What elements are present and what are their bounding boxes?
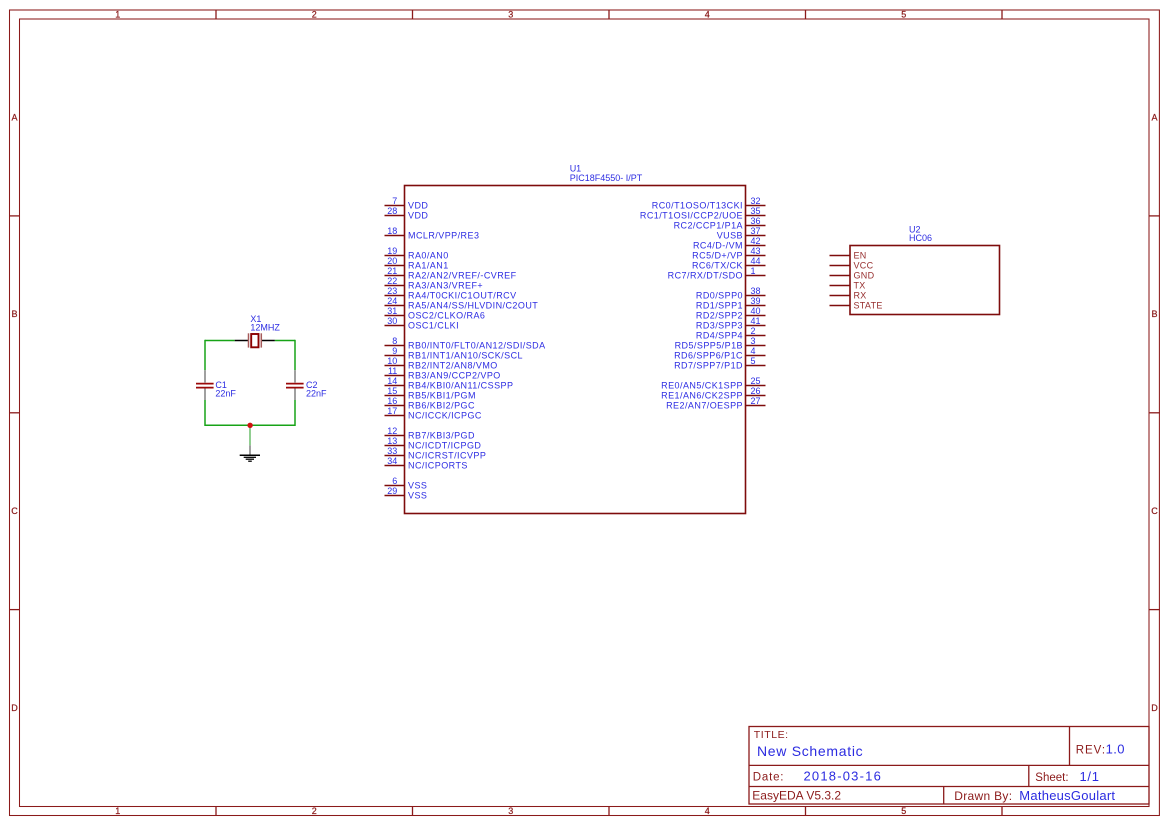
U1 pin 8 RB0/INT0/FLT0/AN12/SDI/SDA (left) [385,336,546,350]
svg-text:RE2/AN7/OESPP: RE2/AN7/OESPP [666,400,743,410]
U1 pin 32 RC0/T1OSO/T13CKI (right) [652,196,766,210]
U1 pin 31 OSC2/CLKO/RA6 (left) [385,306,486,320]
U1 pin 25 RE0/AN5/CK1SPP (right) [661,376,765,390]
crystal X1 body rectangle [251,334,258,347]
svg-text:24: 24 [387,296,397,306]
svg-text:RB6/KBI2/PGC: RB6/KBI2/PGC [408,400,475,410]
svg-text:25: 25 [751,376,761,386]
U1 pin 9 RB1/INT1/AN10/SCK/SCL (left) [385,346,524,360]
svg-text:40: 40 [751,306,761,316]
U1 pin 27 RE2/AN7/OESPP (right) [666,396,765,410]
svg-text:VSS: VSS [408,480,427,490]
svg-text:38: 38 [751,286,761,296]
capacitor C2 top gray stub [294,370,296,382]
U1 pin 5 RD7/SPP7/P1D (right) [674,356,765,370]
frame row ticks left [10,216,20,610]
svg-text:2: 2 [751,326,756,336]
svg-text:TX: TX [854,280,866,290]
crystal X1 left pin (black) [235,340,249,342]
svg-text:23: 23 [387,286,397,296]
svg-text:1: 1 [115,806,120,816]
svg-text:RC4/D-/VM: RC4/D-/VM [693,240,743,250]
svg-text:33: 33 [387,446,397,456]
svg-text:31: 31 [387,306,397,316]
U1 pin 15 RB5/KBI1/PGM (left) [385,386,476,400]
svg-text:EN: EN [854,250,867,260]
svg-text:8: 8 [392,336,397,346]
svg-text:RD1/SPP1: RD1/SPP1 [696,300,743,310]
svg-text:RX: RX [854,290,867,300]
svg-text:12MHZ: 12MHZ [250,322,280,332]
U2 pin RX [830,290,867,300]
ground symbol [240,455,260,461]
svg-text:RD0/SPP0: RD0/SPP0 [696,290,743,300]
U1 pin 41 RD3/SPP3 (right) [696,316,766,330]
svg-text:NC/ICPORTS: NC/ICPORTS [408,460,468,470]
svg-text:VUSB: VUSB [717,230,743,240]
svg-text:11: 11 [388,366,397,376]
IC U1 PIC18F4550 body [405,186,746,514]
svg-text:VDD: VDD [408,200,428,210]
U1 pin 33 NC/ICRST/ICVPP (left) [385,446,487,460]
capacitor C2 bottom plate [286,387,304,389]
U1 pin 19 RA0/AN0 (left) [385,246,449,260]
wire right vertical lower (C2 to corner) [294,400,296,426]
svg-text:1.0: 1.0 [1106,741,1125,756]
U1 pin 14 RB4/KBI0/AN11/CSSPP (left) [385,376,514,390]
capacitor C1 top plate [196,383,214,385]
wire top right (X1 right to corner) [275,340,295,342]
U1 pin 43 RC5/D+/VP (right) [692,246,765,260]
svg-text:44: 44 [751,256,761,266]
svg-text:5: 5 [901,10,906,20]
svg-text:RD6/SPP6/P1C: RD6/SPP6/P1C [674,350,743,360]
svg-text:2: 2 [312,10,317,20]
U1 pin 35 RC1/T1OSI/CCP2/UOE (right) [640,206,766,220]
svg-text:21: 21 [387,266,397,276]
svg-text:4: 4 [705,806,710,816]
svg-text:U1: U1 [570,164,582,174]
svg-text:39: 39 [751,296,761,306]
svg-text:22: 22 [387,276,397,286]
svg-text:28: 28 [387,206,397,216]
U1 pin 30 OSC1/CLKI (left) [385,316,460,330]
svg-text:16: 16 [387,396,397,406]
U1 pin 39 RD1/SPP1 (right) [696,296,766,310]
capacitor C2 top plate [286,383,304,385]
svg-text:C: C [1151,506,1158,516]
svg-text:36: 36 [751,216,761,226]
svg-text:43: 43 [751,246,761,256]
svg-text:14: 14 [387,376,397,386]
frame row letters left [11,112,18,713]
svg-text:D: D [11,703,18,713]
U1 pin 36 RC2/CCP1/P1A (right) [674,216,766,230]
frame column numbers top [115,10,906,20]
svg-text:13: 13 [387,436,397,446]
wire top left (X1 left to corner) [205,340,235,342]
svg-text:10: 10 [387,356,397,366]
U1 pin 22 RA3/AN3/VREF+ (left) [385,276,484,290]
svg-text:22nF: 22nF [215,388,236,398]
U2 pin VCC [830,260,874,270]
svg-text:35: 35 [751,206,761,216]
svg-text:D: D [1151,703,1158,713]
U1 pin 26 RE1/AN6/CK2SPP (right) [661,386,765,400]
svg-text:PIC18F4550- I/PT: PIC18F4550- I/PT [570,173,643,183]
svg-text:RC6/TX/CK: RC6/TX/CK [692,260,743,270]
ground stub wire (light green) [249,425,251,445]
svg-text:RC5/D+/VP: RC5/D+/VP [692,250,743,260]
svg-text:NC/ICDT/ICPGD: NC/ICDT/ICPGD [408,440,481,450]
svg-text:RB7/KBI3/PGD: RB7/KBI3/PGD [408,430,475,440]
wire bottom [205,424,295,426]
svg-text:MCLR/VPP/RE3: MCLR/VPP/RE3 [408,230,479,240]
U1 pin 20 RA1/AN1 (left) [385,256,449,270]
frame row letters right [1151,112,1158,713]
U1 pin 38 RD0/SPP0 (right) [696,286,766,300]
U1 pin 24 RA5/AN4/SS/HLVDIN/C2OUT (left) [385,296,539,310]
svg-text:RB4/KBI0/AN11/CSSPP: RB4/KBI0/AN11/CSSPP [408,380,513,390]
svg-text:STATE: STATE [854,300,883,310]
svg-text:RD2/SPP2: RD2/SPP2 [696,310,743,320]
svg-text:RB1/INT1/AN10/SCK/SCL: RB1/INT1/AN10/SCK/SCL [408,350,523,360]
frame column ticks top [216,10,1002,19]
svg-text:22nF: 22nF [306,388,327,398]
svg-text:32: 32 [751,196,761,206]
U1 pin 17 NC/ICCK/ICPGC (left) [385,406,482,420]
svg-text:B: B [1151,309,1157,319]
svg-text:19: 19 [387,246,397,256]
svg-text:EasyEDA V5.3.2: EasyEDA V5.3.2 [752,788,841,802]
crystal X1 right plate [260,333,262,347]
svg-text:RD4/SPP4: RD4/SPP4 [696,330,743,340]
svg-text:RA0/AN0: RA0/AN0 [408,250,449,260]
wire left vertical lower (C1 to corner) [204,400,206,426]
svg-text:26: 26 [751,386,761,396]
svg-text:6: 6 [392,476,397,486]
ground stub gray segment [249,445,251,455]
svg-text:34: 34 [387,456,397,466]
svg-text:RC7/RX/DT/SDO: RC7/RX/DT/SDO [668,270,743,280]
U1 pin 1 RC7/RX/DT/SDO (right) [668,266,766,280]
svg-text:9: 9 [392,346,397,356]
U1 pin 13 NC/ICDT/ICPGD (left) [385,436,482,450]
svg-text:12: 12 [387,426,397,436]
svg-text:29: 29 [387,486,397,496]
capacitor C2 bottom gray stub [294,389,296,401]
frame column ticks bottom [216,807,1002,816]
svg-text:Date:: Date: [753,771,785,783]
svg-text:2018-03-16: 2018-03-16 [804,768,883,783]
U1 pin 42 RC4/D-/VM (right) [693,236,766,250]
svg-text:Drawn By:: Drawn By: [954,789,1012,803]
svg-text:A: A [11,112,17,122]
U1 pin 2 RD4/SPP4 (right) [696,326,766,340]
svg-text:15: 15 [387,386,397,396]
U1 pin 29 VSS (left) [385,486,428,500]
IC U2 HC06 body [850,246,1000,315]
svg-text:RD5/SPP5/P1B: RD5/SPP5/P1B [675,340,743,350]
U1 pin 11 RB3/AN9/CCP2/VPO (left) [385,366,501,380]
svg-text:MatheusGoulart: MatheusGoulart [1019,788,1115,803]
svg-text:RC2/CCP1/P1A: RC2/CCP1/P1A [674,220,743,230]
svg-text:RD7/SPP7/P1D: RD7/SPP7/P1D [674,360,743,370]
U1 pin 16 RB6/KBI2/PGC (left) [385,396,475,410]
title block border [749,727,1149,805]
U1 pin 40 RD2/SPP2 (right) [696,306,766,320]
svg-text:A: A [1151,112,1157,122]
U1 pin 12 RB7/KBI3/PGD (left) [385,426,475,440]
svg-text:RA1/AN1: RA1/AN1 [408,260,449,270]
svg-text:RA2/AN2/VREF/-CVREF: RA2/AN2/VREF/-CVREF [408,270,517,280]
capacitor C1 top gray stub [204,370,206,382]
U1 pin 34 NC/ICPORTS (left) [385,456,468,470]
U1 pin 18 MCLR/VPP/RE3 (left) [385,226,480,240]
svg-text:RA5/AN4/SS/HLVDIN/C2OUT: RA5/AN4/SS/HLVDIN/C2OUT [408,300,538,310]
capacitor C1 bottom gray stub [204,389,206,401]
wire left vertical upper (corner to C1) [204,340,206,370]
frame row ticks right [1149,216,1160,610]
svg-text:RC1/T1OSI/CCP2/UOE: RC1/T1OSI/CCP2/UOE [640,210,743,220]
U2 pin EN [830,250,867,260]
U2 pin GND [830,270,875,280]
frame column numbers bottom [115,806,906,816]
svg-text:2: 2 [312,806,317,816]
svg-text:42: 42 [751,236,761,246]
svg-text:RB2/INT2/AN8/VMO: RB2/INT2/AN8/VMO [408,360,498,370]
capacitor C1 bottom plate [196,387,214,389]
svg-text:VSS: VSS [408,490,427,500]
svg-text:1: 1 [751,266,756,276]
svg-text:RE1/AN6/CK2SPP: RE1/AN6/CK2SPP [661,390,743,400]
crystal X1 right pin (black) [262,340,275,342]
U1 pin 7 VDD (left) [385,196,429,210]
svg-text:37: 37 [751,226,761,236]
U2 pin TX [830,280,866,290]
svg-text:REV:: REV: [1076,744,1106,756]
svg-text:VDD: VDD [408,210,428,220]
svg-text:OSC2/CLKO/RA6: OSC2/CLKO/RA6 [408,310,485,320]
svg-text:41: 41 [751,316,761,326]
U1 pin 21 RA2/AN2/VREF/-CVREF (left) [385,266,517,280]
svg-text:RA3/AN3/VREF+: RA3/AN3/VREF+ [408,280,483,290]
svg-text:NC/ICRST/ICVPP: NC/ICRST/ICVPP [408,450,486,460]
svg-text:5: 5 [901,806,906,816]
svg-text:NC/ICCK/ICPGC: NC/ICCK/ICPGC [408,410,482,420]
U1 pin 10 RB2/INT2/AN8/VMO (left) [385,356,498,370]
U1 pin 4 RD6/SPP6/P1C (right) [674,346,765,360]
svg-text:RB5/KBI1/PGM: RB5/KBI1/PGM [408,390,476,400]
svg-text:C: C [11,506,18,516]
U1 pin 28 VDD (left) [385,206,429,220]
svg-text:RA4/T0CKI/C1OUT/RCV: RA4/T0CKI/C1OUT/RCV [408,290,517,300]
U1 pin 23 RA4/T0CKI/C1OUT/RCV (left) [385,286,517,300]
svg-text:RB3/AN9/CCP2/VPO: RB3/AN9/CCP2/VPO [408,370,501,380]
svg-text:3: 3 [508,10,513,20]
svg-text:4: 4 [751,346,756,356]
svg-text:Sheet:: Sheet: [1035,772,1068,784]
svg-text:New Schematic: New Schematic [757,743,863,759]
svg-text:1/1: 1/1 [1080,769,1100,784]
svg-text:1: 1 [115,10,120,20]
svg-text:18: 18 [387,226,397,236]
svg-text:4: 4 [705,10,710,20]
svg-text:B: B [11,309,17,319]
crystal X1 left plate [248,333,250,347]
U1 pin 3 RD5/SPP5/P1B (right) [675,336,766,350]
svg-text:7: 7 [392,196,397,206]
svg-text:RC0/T1OSO/T13CKI: RC0/T1OSO/T13CKI [652,200,743,210]
U1 pin 6 VSS (left) [385,476,428,490]
svg-text:30: 30 [387,316,397,326]
svg-text:27: 27 [751,396,761,406]
svg-text:RD3/SPP3: RD3/SPP3 [696,320,743,330]
svg-text:TITLE:: TITLE: [754,729,789,741]
junction dot (net node) [247,423,252,428]
svg-text:OSC1/CLKI: OSC1/CLKI [408,320,459,330]
svg-text:20: 20 [387,256,397,266]
svg-text:3: 3 [508,806,513,816]
svg-text:GND: GND [854,270,875,280]
svg-text:3: 3 [751,336,756,346]
U1 pin 44 RC6/TX/CK (right) [692,256,766,270]
U1 pin 37 VUSB (right) [717,226,766,240]
svg-text:17: 17 [387,406,397,416]
svg-text:RB0/INT0/FLT0/AN12/SDI/SDA: RB0/INT0/FLT0/AN12/SDI/SDA [408,340,546,350]
wire right vertical upper (corner to C2) [294,340,296,370]
svg-text:VCC: VCC [854,260,874,270]
svg-text:HC06: HC06 [909,233,932,243]
svg-text:5: 5 [751,356,756,366]
U2 pin STATE [830,300,883,310]
svg-text:RE0/AN5/CK1SPP: RE0/AN5/CK1SPP [661,380,743,390]
